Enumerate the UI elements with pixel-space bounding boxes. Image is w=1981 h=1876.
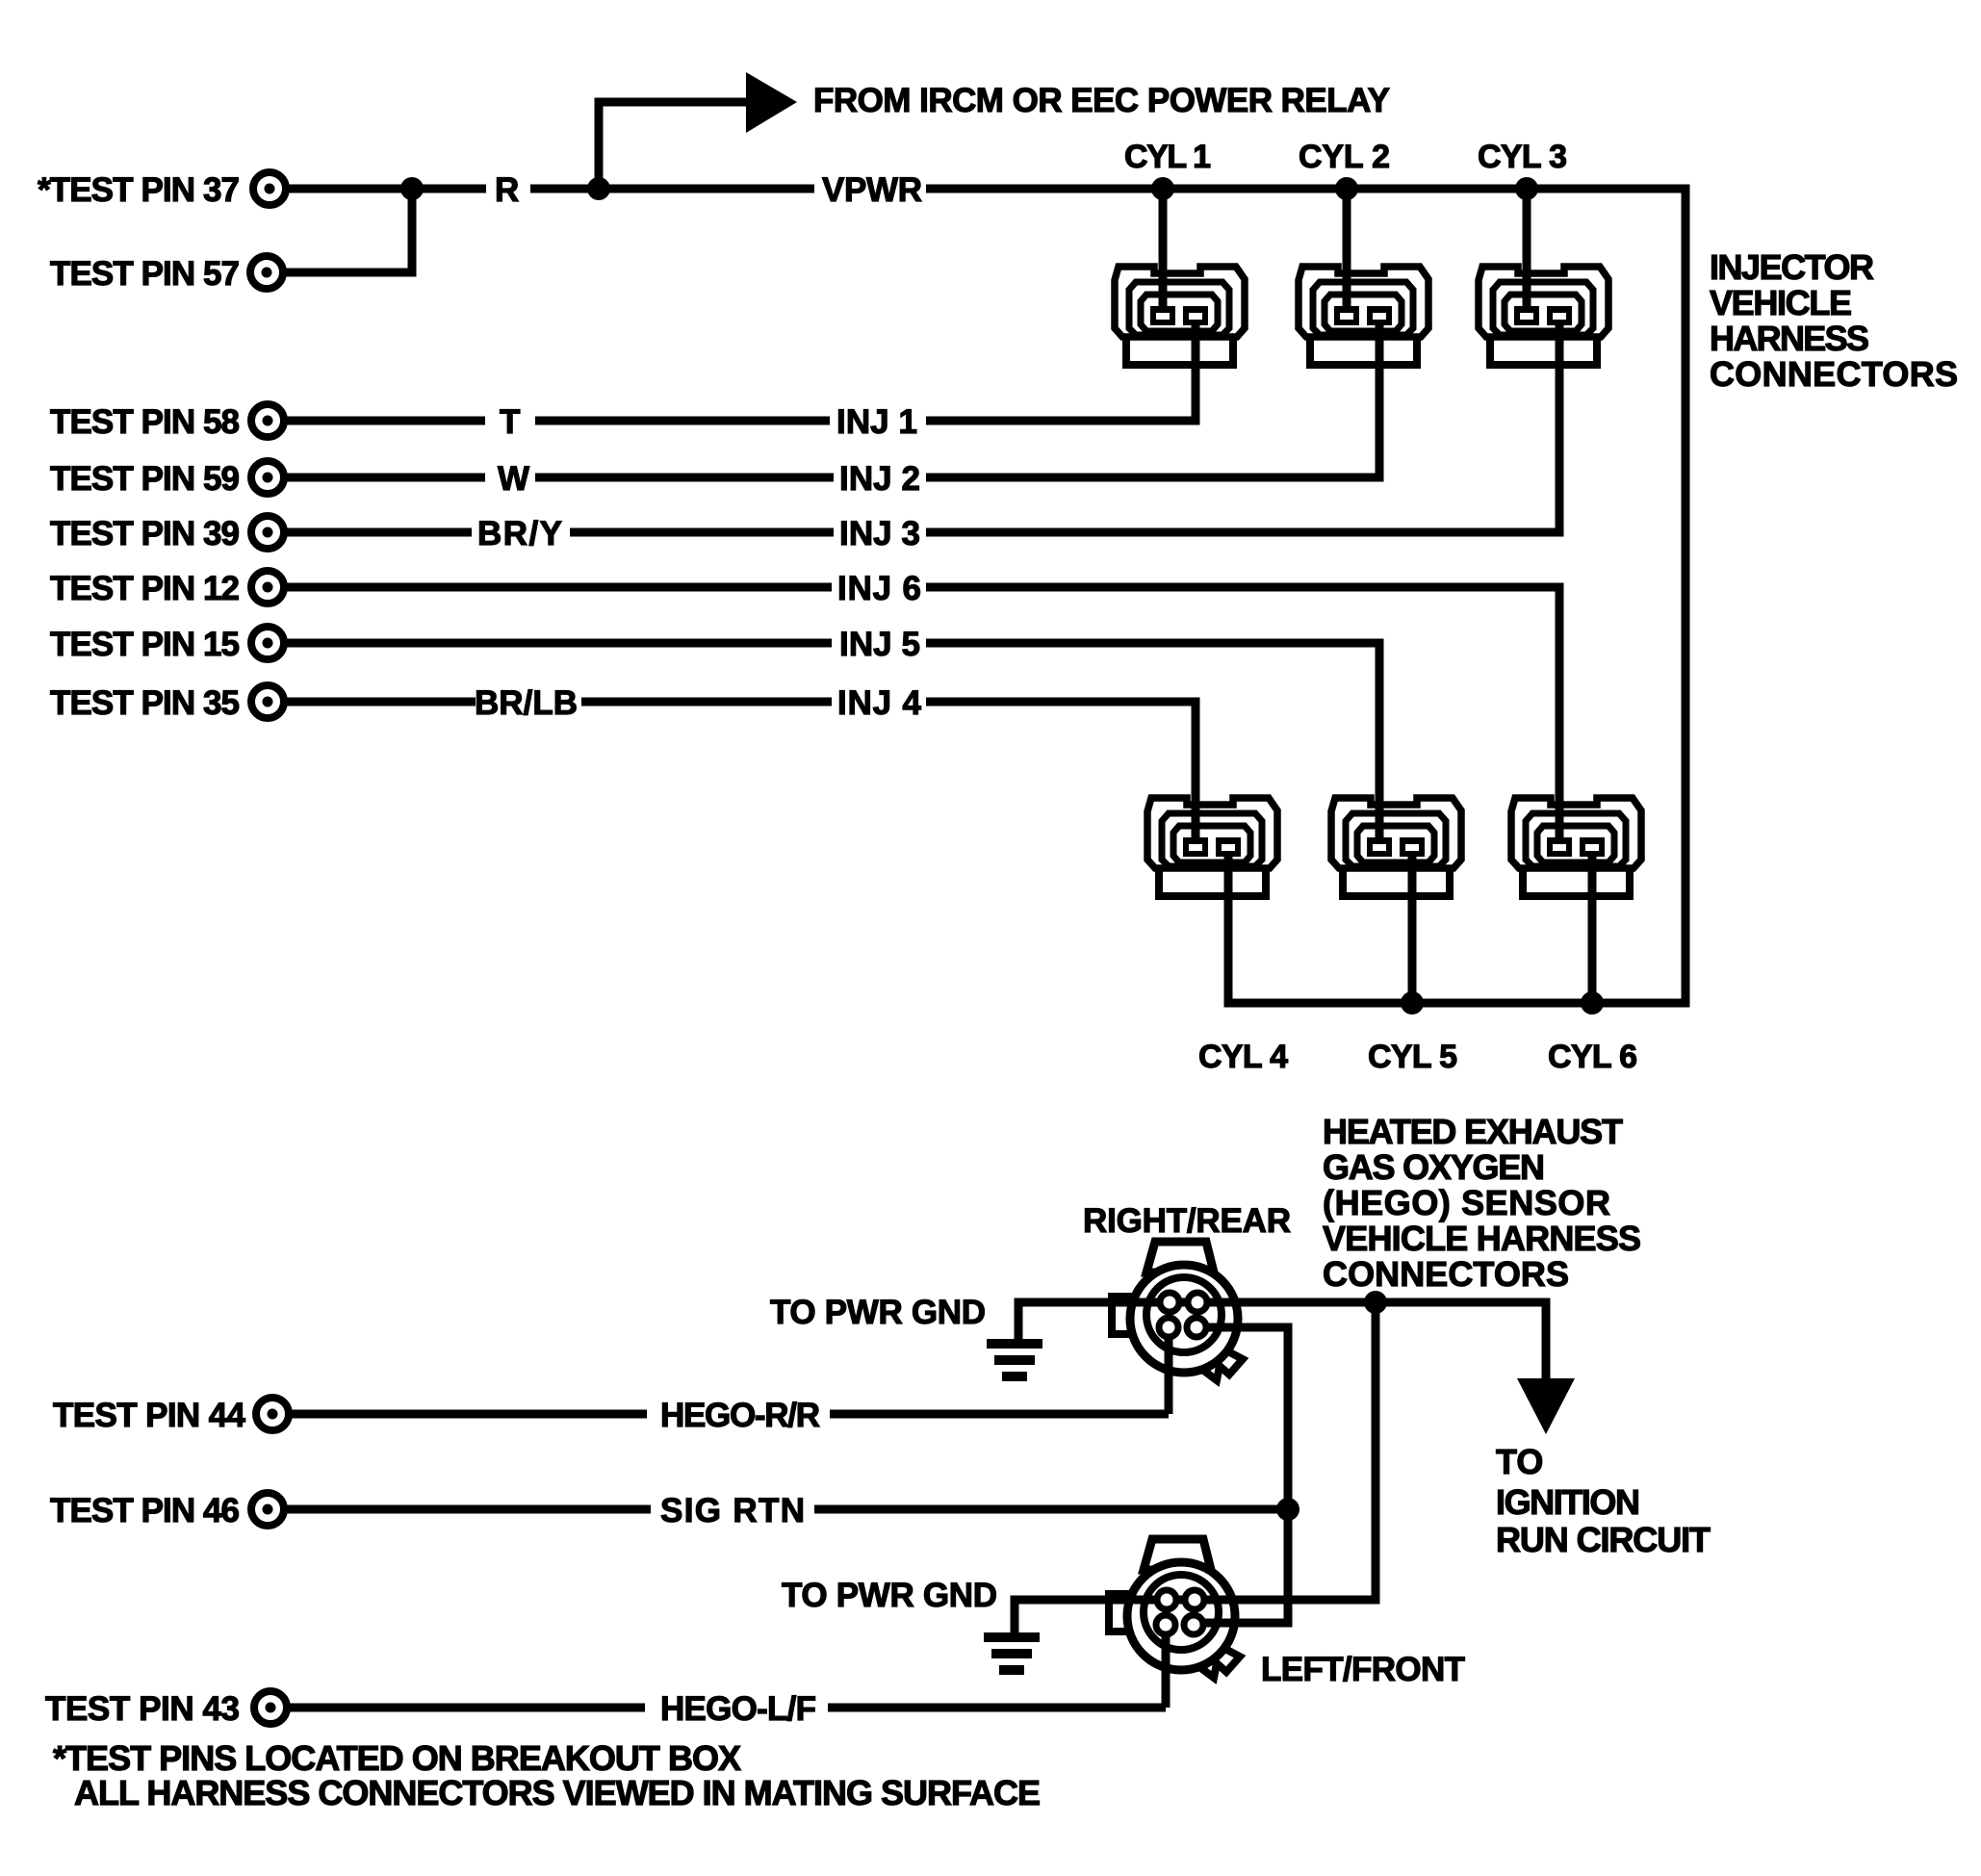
svg-text:TEST PIN 57: TEST PIN 57 <box>50 255 240 293</box>
HEGO connector RIGHT/REAR body <box>1112 1242 1243 1380</box>
wire HEGO top line to ignition <box>1018 1302 1546 1386</box>
wire bottom bus <box>1224 999 1690 1008</box>
wire test pin 57 to junction <box>283 189 412 272</box>
svg-text:GAS OXYGEN: GAS OXYGEN <box>1323 1147 1545 1187</box>
injector connector CYL 4 body <box>1147 798 1277 896</box>
svg-text:RUN CIRCUIT: RUN CIRCUIT <box>1496 1520 1711 1559</box>
svg-text:*TEST PIN 37: *TEST PIN 37 <box>38 171 240 209</box>
svg-text:TO PWR GND: TO PWR GND <box>770 1294 986 1331</box>
wire INJ5 row segment 1 <box>284 639 832 648</box>
wire CYL6 return drop <box>1588 856 1597 1003</box>
svg-text:TEST PIN 44: TEST PIN 44 <box>53 1397 246 1434</box>
wire drop VPWR to CYL2 <box>1343 189 1351 308</box>
injector connector CYL 3 pins <box>1514 306 1572 325</box>
svg-text:SIG RTN: SIG RTN <box>660 1492 805 1529</box>
svg-text:INJ 6: INJ 6 <box>837 570 921 607</box>
test pin 57 terminal <box>250 256 283 289</box>
wire drop VPWR to CYL1 <box>1159 189 1168 308</box>
wire CYL4 return drop <box>1224 856 1233 1003</box>
wire INJ4 row segment 1 <box>284 698 476 707</box>
svg-text:INJ 1: INJ 1 <box>836 403 917 441</box>
wire drop VPWR to CYL3 <box>1523 189 1531 308</box>
svg-text:FROM IRCM OR EEC POWER RELAY: FROM IRCM OR EEC POWER RELAY <box>813 82 1390 119</box>
injector connector CYL 2 pins <box>1334 306 1392 325</box>
svg-text:TEST PIN 46: TEST PIN 46 <box>50 1492 240 1529</box>
junction VPWR / CYL3 <box>1515 177 1538 200</box>
svg-text:TEST PIN 59: TEST PIN 59 <box>50 460 240 498</box>
ground symbol upper TO PWR GND <box>987 1344 1042 1376</box>
injector connector CYL 2 body <box>1299 267 1428 365</box>
wire SIG RTN row segment 2 <box>814 1505 1288 1514</box>
svg-text:LEFT/FRONT: LEFT/FRONT <box>1261 1651 1465 1688</box>
svg-text:TEST PIN 43: TEST PIN 43 <box>45 1690 240 1728</box>
svg-text:CYL 4: CYL 4 <box>1198 1039 1288 1075</box>
svg-text:(HEGO) SENSOR: (HEGO) SENSOR <box>1323 1183 1610 1222</box>
svg-text:TEST PIN 39: TEST PIN 39 <box>50 515 240 553</box>
wire INJ6 row segment 2 and drop to CYL6 <box>926 587 1559 838</box>
injector connector CYL 6 body <box>1511 798 1641 896</box>
wire HEGO-R/R row segment 1 <box>289 1410 647 1419</box>
wire INJ2 row segment 2 <box>535 474 834 482</box>
wire ignition branch down to LEFT/FRONT <box>1015 1302 1376 1639</box>
injector connector CYL 3 body <box>1479 267 1608 365</box>
wire INJ2 row segment 1 <box>284 474 485 482</box>
wire RIGHT/REAR signal return leg <box>1194 1327 1288 1623</box>
svg-text:VPWR: VPWR <box>822 171 922 209</box>
HEGO connector RIGHT/REAR pins <box>1159 1293 1207 1337</box>
svg-text:CONNECTORS: CONNECTORS <box>1323 1254 1569 1294</box>
svg-text:W: W <box>498 460 529 498</box>
wire INJ3 row segment 2 <box>570 528 834 537</box>
svg-text:INJ 3: INJ 3 <box>839 515 920 553</box>
svg-text:CONNECTORS: CONNECTORS <box>1710 354 1958 394</box>
wire to relay arrow <box>599 102 749 189</box>
test pin 43 terminal <box>254 1691 287 1724</box>
svg-text:CYL 5: CYL 5 <box>1368 1039 1457 1075</box>
svg-text:IGNITION: IGNITION <box>1496 1482 1640 1522</box>
injector connector CYL 5 body <box>1331 798 1461 896</box>
svg-text:INJ 2: INJ 2 <box>839 460 920 498</box>
wire INJ1 row segment 2 <box>535 417 830 425</box>
junction VPWR / test pin 57 <box>400 177 424 200</box>
svg-text:TEST PIN 15: TEST PIN 15 <box>50 626 240 663</box>
test pin 35 terminal <box>251 685 284 718</box>
junction VPWR / relay arrow <box>587 177 610 200</box>
test pin 39 terminal <box>251 516 284 549</box>
svg-text:HEGO-R/R: HEGO-R/R <box>660 1397 820 1434</box>
svg-text:CYL 2: CYL 2 <box>1299 139 1390 175</box>
test pin 59 terminal <box>251 461 284 494</box>
wire CYL5 return drop <box>1408 856 1417 1003</box>
svg-text:CYL 6: CYL 6 <box>1548 1039 1637 1075</box>
junction bottom bus / CYL5 <box>1401 991 1424 1015</box>
wire INJ2 row segment 3 and riser to CYL2 <box>926 324 1379 477</box>
svg-text:VEHICLE HARNESS: VEHICLE HARNESS <box>1323 1219 1641 1258</box>
wire HEGO-L/F row segment 1 <box>287 1704 645 1712</box>
wire HEGO-R/R riser <box>1165 1327 1173 1414</box>
svg-text:CYL 3: CYL 3 <box>1478 139 1567 175</box>
svg-text:CYL 1: CYL 1 <box>1124 139 1211 175</box>
svg-text:TO PWR GND: TO PWR GND <box>782 1577 997 1614</box>
wire SIG RTN row segment 1 <box>284 1505 651 1514</box>
svg-text:INJ 4: INJ 4 <box>837 684 922 722</box>
svg-text:T: T <box>500 403 520 441</box>
test pin 58 terminal <box>251 404 284 437</box>
wire HEGO-L/F row segment 2 <box>828 1704 1166 1712</box>
svg-text:HEGO-L/F: HEGO-L/F <box>660 1690 816 1728</box>
injector connector CYL 1 pins <box>1150 306 1208 325</box>
svg-text:R: R <box>495 171 519 209</box>
svg-text:TEST PIN 58: TEST PIN 58 <box>50 403 240 441</box>
wire INJ3 row segment 3 and riser to CYL3 <box>926 324 1559 532</box>
wire INJ1 row segment 3 and riser to CYL1 <box>926 324 1196 421</box>
wire INJ6 row segment 1 <box>284 583 832 592</box>
HEGO connector LEFT/FRONT body <box>1109 1539 1240 1678</box>
test pin 12 terminal <box>251 571 284 604</box>
test pin 44 terminal <box>256 1398 289 1430</box>
junction ignition branch <box>1364 1291 1387 1314</box>
wire INJ5 row segment 2 and drop to CYL5 <box>926 643 1379 838</box>
test pin 46 terminal <box>251 1493 284 1526</box>
svg-text:RIGHT/REAR: RIGHT/REAR <box>1083 1202 1291 1240</box>
arrowhead to ignition run circuit <box>1517 1378 1575 1434</box>
arrowhead FROM IRCM <box>746 72 797 133</box>
svg-text:HEATED EXHAUST: HEATED EXHAUST <box>1323 1112 1623 1151</box>
junction VPWR / CYL2 <box>1335 177 1358 200</box>
junction VPWR / CYL1 <box>1151 177 1174 200</box>
wire INJ4 row segment 3 and drop to CYL4 <box>926 702 1196 838</box>
test pin 15 terminal <box>251 627 284 659</box>
HEGO connector LEFT/FRONT pins <box>1156 1590 1204 1634</box>
injector connector CYL 5 pins <box>1367 837 1425 857</box>
svg-text:VEHICLE: VEHICLE <box>1710 283 1852 322</box>
wire VPWR main segment 2 <box>530 185 814 193</box>
svg-text:BR/LB: BR/LB <box>475 684 578 722</box>
wire HEGO-R/R row segment 2 <box>830 1410 1169 1419</box>
wire INJ4 row segment 2 <box>581 698 832 707</box>
wire VPWR main segment 3 <box>926 185 1690 193</box>
wire INJ3 row segment 1 <box>284 528 472 537</box>
svg-text:HARNESS: HARNESS <box>1710 319 1869 358</box>
injector connector CYL 1 body <box>1115 267 1245 365</box>
junction bottom bus / CYL6 <box>1581 991 1604 1015</box>
svg-text:TEST PIN 12: TEST PIN 12 <box>50 570 240 607</box>
wire INJ1 row segment 1 <box>284 417 485 425</box>
svg-text:BR/Y: BR/Y <box>477 515 562 553</box>
svg-text:ALL HARNESS CONNECTORS VIEWED: ALL HARNESS CONNECTORS VIEWED IN MATING … <box>74 1773 1041 1812</box>
svg-text:INJECTOR: INJECTOR <box>1710 247 1874 287</box>
wire VPWR main segment 1 <box>286 185 486 193</box>
ground symbol lower TO PWR GND <box>984 1637 1040 1670</box>
injector connector CYL 4 pins <box>1183 837 1241 857</box>
injector connector CYL 6 pins <box>1547 837 1605 857</box>
wire HEGO-L/F riser <box>1162 1625 1171 1708</box>
svg-text:TEST PIN 35: TEST PIN 35 <box>50 684 240 722</box>
svg-text:INJ 5: INJ 5 <box>839 626 920 663</box>
svg-text:*TEST PINS LOCATED ON BREAKOUT: *TEST PINS LOCATED ON BREAKOUT BOX <box>53 1738 741 1778</box>
wire right bus vertical <box>1682 189 1690 1008</box>
svg-text:TO: TO <box>1496 1442 1543 1481</box>
junction SIG RTN <box>1276 1498 1299 1521</box>
test pin 37 terminal <box>253 172 286 205</box>
